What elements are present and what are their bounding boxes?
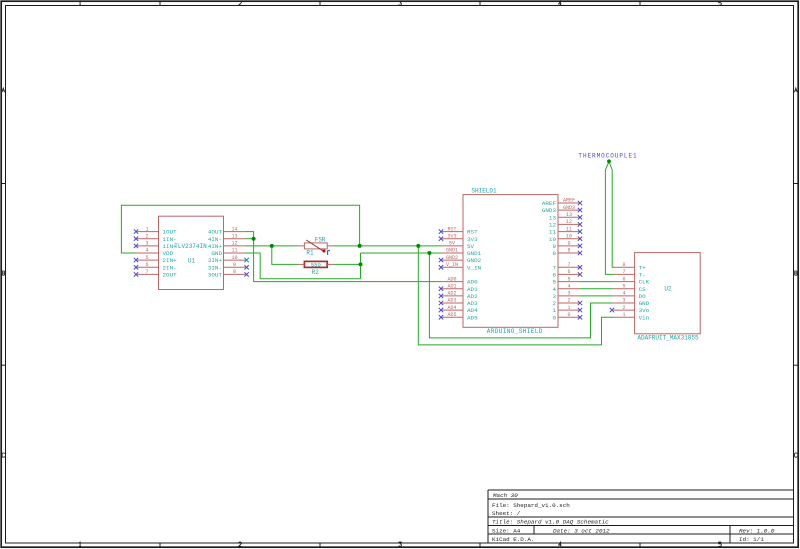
svg-text:AD0: AD0: [447, 276, 456, 282]
svg-text:GND1: GND1: [467, 250, 482, 257]
svg-text:2: 2: [622, 305, 625, 311]
wire U1 4OUT to 4IN- and AD0: [246, 232, 441, 282]
svg-text:4: 4: [622, 291, 625, 297]
wire 5V loop from U1 VDD: [121, 205, 359, 253]
resistor R2 550 body: [298, 261, 335, 267]
svg-text:Rev: 1.0.0: Rev: 1.0.0: [739, 528, 775, 535]
svg-text:550: 550: [311, 261, 322, 268]
SHIELD1 no-connect marks right: [578, 201, 582, 320]
title block frame: [488, 490, 794, 543]
svg-text:3Vo: 3Vo: [639, 307, 650, 314]
svg-text:12: 12: [231, 241, 237, 247]
R1 variable-resistor arrow: [306, 240, 325, 252]
svg-text:3: 3: [552, 293, 556, 300]
svg-text:AD0: AD0: [467, 279, 478, 286]
svg-text:9: 9: [552, 243, 556, 250]
junction U1 4OUT/4IN-: [252, 237, 256, 241]
svg-text:3: 3: [622, 298, 625, 304]
svg-text:R2: R2: [312, 269, 320, 276]
wire node A branch to R2 left: [272, 246, 298, 265]
U2 no-connect mark pin 2 (3Vo): [610, 308, 614, 312]
svg-text:Title: Shepard v1.0 DAQ Schema: Title: Shepard v1.0 DAQ Schematic: [492, 519, 609, 526]
wire SHIELD1 pin3 to U2 DO: [580, 295, 613, 297]
svg-text:AD1: AD1: [467, 286, 478, 293]
svg-text:V_IN: V_IN: [467, 264, 482, 271]
wire R2 right to GND rail: [334, 263, 361, 265]
op-amp U1 TLV2374IN: [136, 216, 246, 289]
svg-text:AD2: AD2: [467, 293, 478, 300]
svg-text:Sheet: /: Sheet: /: [492, 510, 521, 517]
svg-text:8: 8: [622, 262, 625, 268]
junction GND at R2: [359, 262, 363, 266]
wire GND rail vertical at R2: [360, 253, 362, 279]
wire GND row to SHIELD1 GND1: [361, 252, 442, 254]
svg-text:3V3: 3V3: [447, 233, 456, 239]
SHIELD1 no-connect marks left: [439, 229, 443, 319]
svg-text:1OUT: 1OUT: [163, 229, 178, 236]
svg-text:10: 10: [231, 255, 237, 261]
svg-text:GND: GND: [211, 250, 222, 257]
frame column numbers 1-5 top/bottom: [79, 1, 721, 546]
svg-text:T-: T-: [639, 272, 646, 279]
svg-text:TLV2374IN: TLV2374IN: [174, 243, 207, 250]
svg-text:U1: U1: [188, 257, 196, 264]
svg-text:0: 0: [567, 312, 570, 318]
svg-text:GND3: GND3: [542, 207, 557, 214]
svg-text:8: 8: [552, 250, 556, 257]
svg-text:Mach 30: Mach 30: [493, 492, 518, 499]
svg-text:12: 12: [566, 219, 572, 225]
svg-text:4: 4: [552, 286, 556, 293]
junction 5V to U2 Vin run: [416, 244, 420, 248]
svg-text:5: 5: [552, 279, 556, 286]
U1 no-connect mark pin 10 (teal): [244, 258, 248, 262]
svg-text:13: 13: [549, 214, 557, 221]
svg-text:8: 8: [567, 248, 570, 254]
svg-text:KiCad E.D.A.: KiCad E.D.A.: [492, 536, 534, 543]
svg-text:2: 2: [145, 233, 148, 239]
svg-text:AREF: AREF: [542, 200, 557, 207]
svg-text:2OUT: 2OUT: [163, 272, 178, 279]
svg-text:5: 5: [567, 276, 570, 282]
svg-text:14: 14: [231, 226, 237, 232]
svg-text:CLK: CLK: [639, 279, 650, 286]
svg-text:9: 9: [567, 241, 570, 247]
wire node A: U1 pin12 to R1 left: [246, 245, 298, 247]
svg-text:CS: CS: [639, 286, 647, 293]
svg-text:3OUT: 3OUT: [208, 272, 223, 279]
frame row letters A-C left/right: [2, 88, 797, 457]
svg-text:10: 10: [566, 233, 572, 239]
svg-text:6: 6: [145, 262, 148, 268]
svg-text:T+: T+: [639, 264, 647, 271]
svg-text:1: 1: [567, 305, 570, 311]
svg-text:ADAFRUIT_MAX31855: ADAFRUIT_MAX31855: [637, 334, 699, 341]
svg-text:RST: RST: [467, 229, 478, 236]
svg-text:1: 1: [145, 226, 148, 232]
svg-text:3: 3: [145, 241, 148, 247]
svg-text:11: 11: [566, 226, 572, 232]
svg-text:2: 2: [552, 300, 556, 307]
svg-text:1IN-: 1IN-: [163, 236, 177, 243]
svg-text:AD4: AD4: [447, 305, 456, 311]
wire SHIELD1 pin4 to U2 CS: [580, 288, 613, 290]
svg-text:AD2: AD2: [447, 291, 456, 297]
svg-text:SHIELD1: SHIELD1: [471, 187, 497, 194]
svg-text:3IN+: 3IN+: [208, 257, 223, 264]
svg-text:R1: R1: [306, 249, 314, 256]
svg-text:0: 0: [552, 314, 556, 321]
svg-text:10: 10: [549, 236, 557, 243]
svg-text:4: 4: [567, 283, 570, 289]
svg-text:V_IN: V_IN: [446, 262, 458, 268]
junction 5V at VDD loop: [358, 244, 362, 248]
svg-text:AREF: AREF: [563, 198, 575, 204]
svg-text:5V: 5V: [449, 241, 455, 247]
svg-text:7: 7: [567, 262, 570, 268]
svg-text:ARDUINO_SHIELD: ARDUINO_SHIELD: [487, 328, 543, 335]
svg-text:4IN-: 4IN-: [208, 236, 222, 243]
svg-text:7: 7: [622, 269, 625, 275]
wire U1 4IN- spur: [246, 238, 254, 240]
svg-text:AD5: AD5: [467, 314, 478, 321]
svg-text:Vin: Vin: [639, 314, 650, 321]
thermocouple TC1 probe: [605, 159, 613, 274]
wire SHIELD1 pin5 to U2 CLK: [580, 281, 613, 283]
IC U2 ADAFRUIT_MAX31855: [613, 253, 700, 334]
svg-text:2IN+: 2IN+: [163, 257, 178, 264]
svg-text:7: 7: [552, 264, 556, 271]
svg-text:6: 6: [552, 272, 556, 279]
svg-text:GND2: GND2: [467, 257, 482, 264]
svg-text:File: Shepard_v1.0.sch: File: Shepard_v1.0.sch: [492, 502, 570, 509]
svg-text:AD1: AD1: [447, 283, 456, 289]
svg-text:13: 13: [566, 212, 572, 218]
svg-text:GND: GND: [639, 300, 650, 307]
svg-text:FSR: FSR: [315, 236, 326, 243]
svg-text:2: 2: [567, 298, 570, 304]
svg-text:RST: RST: [447, 226, 456, 232]
wire U1 GND detour: [246, 253, 361, 279]
IC SHIELD1 ARDUINO_SHIELD: [441, 195, 580, 328]
R1 blue pin mark: [328, 250, 330, 255]
svg-text:6: 6: [622, 276, 625, 282]
svg-text:AD5: AD5: [447, 312, 456, 318]
svg-text:Size: A4: Size: A4: [492, 528, 521, 535]
svg-text:3V3: 3V3: [467, 236, 478, 243]
U1 no-connect marks left pins 1,2,3,5,6,7: [134, 229, 138, 276]
svg-text:GND1: GND1: [446, 248, 458, 254]
svg-text:2IN-: 2IN-: [163, 264, 177, 271]
svg-text:6: 6: [567, 269, 570, 275]
svg-text:AD3: AD3: [467, 300, 478, 307]
svg-text:7: 7: [145, 269, 148, 275]
svg-text:5: 5: [622, 283, 625, 289]
svg-text:11: 11: [549, 229, 557, 236]
svg-text:1: 1: [552, 307, 556, 314]
svg-text:9: 9: [233, 262, 236, 268]
svg-text:3: 3: [567, 291, 570, 297]
svg-text:11: 11: [231, 248, 237, 254]
wire R1 right to 5V rail and SHIELD1 5V: [334, 245, 441, 247]
junction GND at GND1: [427, 251, 431, 255]
U1 no-connect marks pins 9,8: [244, 265, 248, 277]
svg-text:VDD: VDD: [163, 250, 174, 257]
svg-text:4OUT: 4OUT: [208, 229, 223, 236]
svg-text:GND3: GND3: [563, 205, 575, 211]
svg-text:1: 1: [622, 312, 625, 318]
svg-text:13: 13: [231, 233, 237, 239]
svg-text:5: 5: [145, 255, 148, 261]
junction node A: [270, 244, 274, 248]
svg-text:THERMOCOUPLE1: THERMOCOUPLE1: [578, 153, 637, 160]
resistor R1 FSR body: [298, 243, 335, 249]
svg-text:3IN-: 3IN-: [208, 264, 222, 271]
svg-text:DO: DO: [639, 293, 647, 300]
svg-text:AD3: AD3: [447, 298, 456, 304]
svg-text:GND2: GND2: [446, 255, 458, 261]
svg-text:AD4: AD4: [467, 307, 478, 314]
svg-text:U2: U2: [664, 285, 672, 292]
svg-text:Id: 1/1: Id: 1/1: [739, 536, 764, 543]
wire 5V run to U2 Vin: [418, 246, 613, 345]
wire GND run to U2 GND: [429, 253, 613, 338]
svg-text:4: 4: [145, 248, 148, 254]
svg-text:5V: 5V: [467, 243, 475, 250]
svg-text:Date: 3 oct 2012: Date: 3 oct 2012: [553, 528, 610, 535]
svg-text:8: 8: [233, 269, 236, 275]
svg-text:12: 12: [549, 222, 557, 229]
svg-text:4IN+: 4IN+: [208, 243, 223, 250]
